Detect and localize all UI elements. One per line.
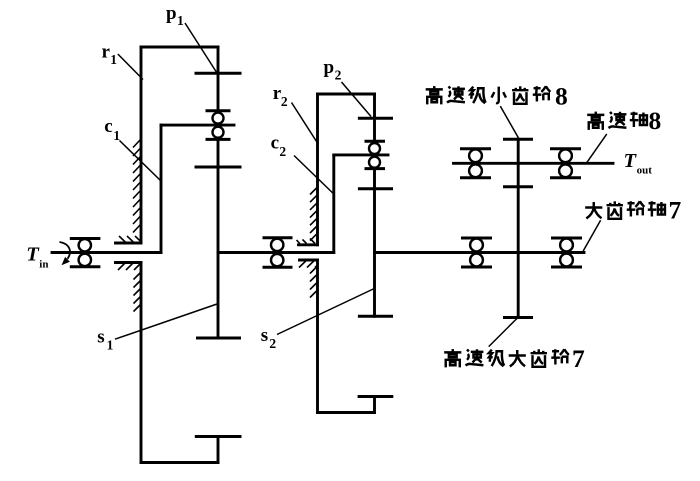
gear7-gear8 vertical line xyxy=(517,139,520,317)
pointer lines xyxy=(115,23,607,347)
svg-text:1: 1 xyxy=(113,128,120,143)
bearing lower-right caps xyxy=(553,238,581,267)
svg-text:8: 8 xyxy=(649,106,662,135)
casing ledge upper stage2 xyxy=(299,243,318,246)
pointer r2 xyxy=(292,103,318,144)
svg-text:p: p xyxy=(324,57,335,78)
hatching lower wall stage1 xyxy=(134,272,142,312)
svg-text:s: s xyxy=(97,327,104,348)
carrier c2 arm xyxy=(332,155,335,253)
ring gear r2 outline top xyxy=(318,93,375,96)
label gaosuji xiaochilun 8 xyxy=(426,82,568,111)
svg-text:T: T xyxy=(26,244,40,266)
svg-text:out: out xyxy=(637,165,653,177)
intermediate shaft sun1 to carrier2 xyxy=(218,251,334,254)
ring gear r1 outline top xyxy=(141,46,218,49)
gear8 top bar xyxy=(505,138,532,141)
svg-text:2: 2 xyxy=(279,144,286,159)
bearing upper-right caps xyxy=(552,149,580,178)
hatching below lower ledge stage1 xyxy=(118,263,141,270)
bearing planet1 caps xyxy=(207,111,229,140)
svg-text:p: p xyxy=(166,3,177,24)
carrier c1 axle line xyxy=(161,124,234,127)
bearing planet2 rollers xyxy=(369,143,380,154)
mesh bar planet2-sun2 xyxy=(359,187,391,190)
bearing planet2 caps xyxy=(366,141,384,168)
svg-text:1: 1 xyxy=(110,52,117,67)
svg-text:T: T xyxy=(624,150,638,172)
svg-text:1: 1 xyxy=(177,13,184,28)
mesh bar sun2 lower xyxy=(359,315,391,318)
hatching below lower ledge stage2 xyxy=(299,261,318,268)
label gaosuzhou 8 xyxy=(587,106,661,135)
input rotation arrow xyxy=(60,242,70,265)
mesh bar planet1-sun1 xyxy=(196,166,240,169)
pointer gear8 label xyxy=(500,106,518,138)
label gaosuji dachilun 7 xyxy=(444,344,585,373)
planet p1 and sun s1 vertical line xyxy=(217,47,220,338)
pointer r1 xyxy=(118,54,143,80)
ring gear r1 left wall upper xyxy=(140,47,143,243)
bearing planet1 rollers xyxy=(213,113,224,124)
pointer gear7 label xyxy=(489,319,517,347)
mesh bar ring1-planet1 xyxy=(196,72,240,75)
svg-text:7: 7 xyxy=(669,196,682,225)
bearing intermediate rollers xyxy=(271,239,283,251)
pointer shaft8 label xyxy=(586,134,607,164)
hatching lower wall stage2 xyxy=(310,266,318,298)
bearing lower-right rollers xyxy=(560,239,573,252)
ring gear r2 left wall upper xyxy=(316,94,319,245)
high speed shaft 8 xyxy=(454,162,614,165)
casing ledge upper stage1 xyxy=(116,242,142,245)
svg-text:7: 7 xyxy=(572,344,585,373)
hatching ground marks stage1 xyxy=(118,139,318,312)
gear7 bottom bar xyxy=(505,316,532,319)
svg-text:c: c xyxy=(104,116,112,137)
label dachilunzhou 7 xyxy=(585,196,681,225)
bearing upper-left rollers xyxy=(469,149,482,162)
mesh bar ring1 lower xyxy=(196,435,240,438)
bearing upper-right rollers xyxy=(559,149,572,162)
pointer s1 xyxy=(115,304,217,339)
pointer p1 xyxy=(185,23,217,73)
mesh bar ring2-planet2 xyxy=(359,117,391,120)
svg-text:2: 2 xyxy=(335,67,342,82)
svg-text:2: 2 xyxy=(281,94,288,109)
gear7-gear8 mesh bar xyxy=(505,185,532,188)
ring gear r2 left wall lower xyxy=(316,260,319,413)
bearing lower-left rollers xyxy=(470,239,483,252)
ring gear r1 outline bottom xyxy=(141,461,218,464)
svg-text:s: s xyxy=(261,325,268,346)
bearing input rollers xyxy=(79,239,91,251)
hatching upper wall stage2 xyxy=(310,187,318,241)
carrier c1 arm xyxy=(160,125,163,252)
ring gear r2 outline bottom xyxy=(318,411,375,414)
casing ledge lower stage1 xyxy=(116,261,142,264)
input shaft xyxy=(52,251,161,254)
bearing input caps xyxy=(71,239,99,267)
pointer c1 xyxy=(120,141,162,182)
hatching above upper ledge stage2 xyxy=(297,239,316,244)
svg-text:2: 2 xyxy=(269,336,276,351)
svg-text:1: 1 xyxy=(107,337,114,352)
casing ledge lower stage2 xyxy=(300,259,318,262)
svg-text:8: 8 xyxy=(555,82,568,111)
svg-text:in: in xyxy=(39,259,48,271)
bearing intermediate caps xyxy=(264,238,291,267)
pointer p2 xyxy=(342,82,372,117)
mesh bar sun1 lower xyxy=(198,337,240,340)
pointer shaft7 label xyxy=(583,220,600,251)
svg-text:r: r xyxy=(102,42,111,63)
ring gear r1 left wall lower xyxy=(140,263,143,463)
hatching above upper ledge stage1 xyxy=(119,236,142,243)
pointer c2 xyxy=(294,156,334,195)
ring gear r1 lower rim xyxy=(217,437,220,463)
bearing upper-left caps xyxy=(462,149,490,178)
ring gear r2 lower rim xyxy=(373,397,376,413)
svg-text:c: c xyxy=(271,133,279,154)
pointer s2 xyxy=(277,289,374,335)
bearing lower-left caps xyxy=(463,238,491,267)
planet p2 and sun s2 vertical line xyxy=(373,94,376,316)
low speed gear shaft 7 xyxy=(375,251,585,254)
carrier c2 axle line xyxy=(334,153,388,156)
mesh bar ring2 lower xyxy=(359,395,392,398)
